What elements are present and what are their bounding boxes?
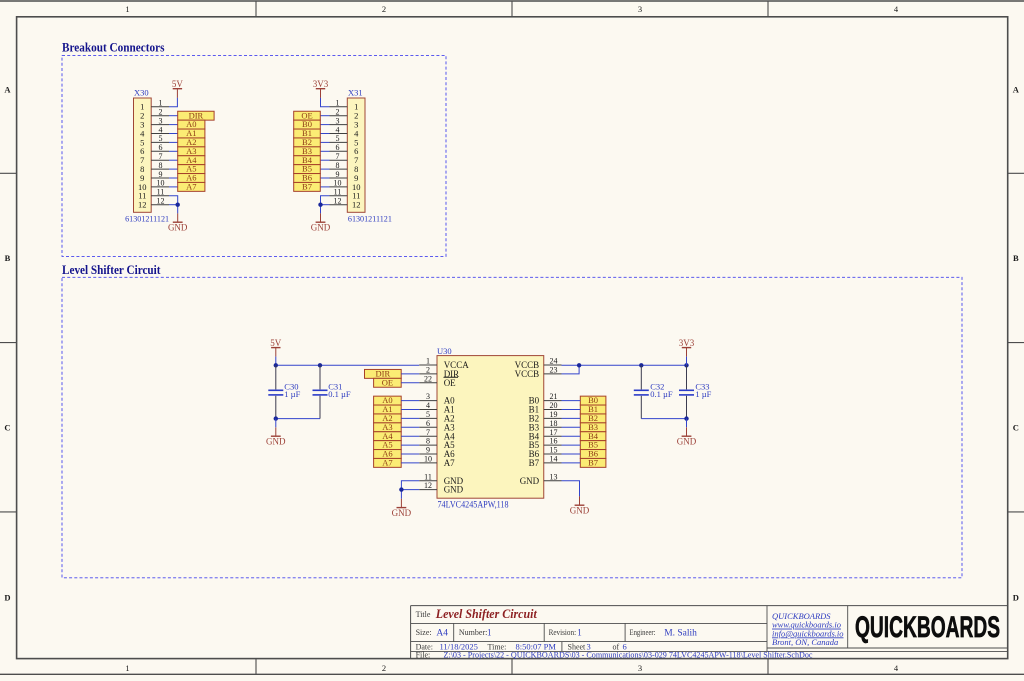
wire 3V3 stem bbox=[686, 357, 688, 366]
section dashed box Level Shifter Circuit bbox=[62, 277, 962, 578]
pin 2 of X31 bbox=[330, 108, 348, 117]
capacitor C31 bbox=[313, 365, 351, 418]
wire X31 pin12 to GND bbox=[321, 204, 330, 206]
port B2 at X31 bbox=[294, 137, 321, 147]
section dashed box Breakout Connectors bbox=[62, 55, 446, 256]
wire A5 port to U30 bbox=[401, 444, 419, 446]
svg-text:A: A bbox=[1013, 85, 1020, 95]
port B2 at U30 bbox=[580, 413, 606, 423]
wire X30 pin6 to port bbox=[169, 150, 178, 152]
svg-text:19: 19 bbox=[550, 410, 558, 419]
svg-text:Level Shifter Circuit: Level Shifter Circuit bbox=[62, 263, 161, 277]
pin 5 of X31 bbox=[330, 134, 348, 143]
ground GND at U30 right bbox=[570, 496, 590, 515]
svg-text:4: 4 bbox=[336, 125, 340, 134]
wire left gnd stem bbox=[400, 490, 402, 499]
zone tick vertical top bbox=[767, 1, 769, 17]
wire A7 port to U30 bbox=[401, 462, 419, 464]
svg-text:A7: A7 bbox=[382, 457, 392, 467]
power symbol 3V3 at level shifter bbox=[679, 338, 695, 357]
svg-text:2: 2 bbox=[426, 366, 430, 375]
svg-text:5: 5 bbox=[159, 134, 163, 143]
svg-text:9: 9 bbox=[159, 170, 163, 179]
svg-text:3V3: 3V3 bbox=[313, 79, 329, 89]
wire X31 pin6 to port bbox=[320, 150, 329, 152]
svg-text:1: 1 bbox=[487, 627, 492, 637]
svg-text:6: 6 bbox=[336, 143, 340, 152]
port B5 at U30 bbox=[580, 440, 606, 450]
ground GND at C33 bbox=[677, 427, 697, 446]
junction 5V rail at C30 bbox=[274, 363, 278, 367]
port A7 at U30 bbox=[374, 457, 402, 467]
svg-text:Revision:: Revision: bbox=[549, 628, 577, 637]
svg-text:0.1 µF: 0.1 µF bbox=[650, 389, 673, 399]
pin 23 VCCB of U30 bbox=[515, 366, 562, 380]
pin 3 of X31 bbox=[330, 116, 348, 125]
svg-text:14: 14 bbox=[550, 455, 558, 464]
wire X31 pin1 to 3V3 bbox=[321, 98, 330, 107]
wire U30 to B7 port bbox=[562, 462, 581, 464]
svg-text:GND: GND bbox=[677, 437, 697, 447]
pin 8 of X31 bbox=[330, 161, 348, 170]
pin 17 B4 of U30 bbox=[529, 428, 562, 442]
svg-text:A7: A7 bbox=[186, 181, 196, 191]
zone tick vertical top bbox=[511, 1, 513, 17]
wire A1 port to U30 bbox=[401, 409, 419, 411]
pin 1 of X30 bbox=[151, 99, 169, 108]
svg-text:2: 2 bbox=[336, 108, 340, 117]
svg-text:11: 11 bbox=[157, 188, 165, 197]
zone tick horizontal right bbox=[1008, 172, 1024, 174]
svg-text:4: 4 bbox=[426, 401, 430, 410]
svg-text:17: 17 bbox=[550, 428, 558, 437]
pin 10 of X30 bbox=[151, 179, 169, 188]
svg-text:C: C bbox=[1013, 423, 1019, 433]
svg-text:24: 24 bbox=[550, 357, 558, 366]
svg-text:20: 20 bbox=[550, 401, 558, 410]
svg-text:X31: X31 bbox=[348, 87, 363, 97]
port A5 at X30 bbox=[178, 164, 205, 174]
svg-text:Size:: Size: bbox=[416, 628, 432, 637]
svg-text:9: 9 bbox=[336, 170, 340, 179]
pin 19 B2 of U30 bbox=[529, 410, 562, 424]
svg-text:3: 3 bbox=[426, 392, 430, 401]
pin 10 of X31 bbox=[330, 179, 348, 188]
zone tick horizontal right bbox=[1008, 511, 1024, 513]
wire C32 bottom to C33 bottom bbox=[641, 418, 686, 420]
pin 14 B7 of U30 bbox=[529, 455, 562, 469]
wire X30 pin7 to port bbox=[169, 159, 178, 161]
svg-text:12: 12 bbox=[138, 200, 147, 210]
port B4 at X31 bbox=[294, 155, 321, 165]
pin 6 A3 of U30 bbox=[419, 419, 455, 433]
svg-text:GND: GND bbox=[520, 476, 540, 486]
svg-text:12: 12 bbox=[334, 197, 342, 206]
wire DIR port to U30 pin2 bbox=[401, 373, 419, 375]
port OE at U30 bbox=[374, 377, 402, 387]
svg-text:4: 4 bbox=[159, 125, 163, 134]
svg-text:QUICKBOARDS: QUICKBOARDS bbox=[855, 611, 1000, 644]
svg-text:15: 15 bbox=[550, 446, 558, 455]
zone tick vertical bottom bbox=[511, 659, 513, 675]
power symbol 5V at X30 bbox=[172, 79, 184, 98]
junction rail at C32 bbox=[639, 363, 643, 367]
wire X31 pin4 to port bbox=[320, 133, 329, 135]
junction U30 left gnd bbox=[399, 487, 403, 491]
port A3 at X30 bbox=[178, 146, 205, 156]
wire U30 to B1 port bbox=[562, 409, 581, 411]
svg-text:8: 8 bbox=[426, 437, 430, 446]
wire X31 pin9 to port bbox=[320, 177, 329, 179]
wire A6 port to U30 bbox=[401, 453, 419, 455]
svg-text:12: 12 bbox=[424, 481, 432, 490]
wire X30 pin4 to port bbox=[169, 133, 178, 135]
svg-text:12: 12 bbox=[352, 200, 361, 210]
pin 4 of X31 bbox=[330, 125, 348, 134]
wire X31 pin3 to port bbox=[320, 124, 329, 126]
wire U30 pin23 up to rail bbox=[562, 365, 580, 374]
ground GND at U30 left bbox=[392, 499, 412, 518]
junction 5V rail at C31 bbox=[318, 363, 322, 367]
pin 13 GND of U30 bbox=[520, 472, 562, 486]
svg-text:3: 3 bbox=[638, 663, 642, 673]
pin 9 of X31 bbox=[330, 170, 348, 179]
wire C31 bottom to C30 bottom bbox=[276, 418, 320, 420]
svg-text:B7: B7 bbox=[302, 181, 312, 191]
svg-text:10: 10 bbox=[157, 179, 165, 188]
pin 7 of X31 bbox=[330, 152, 348, 161]
title block company info bbox=[772, 611, 844, 647]
pin 11 GND of U30 bbox=[419, 472, 463, 486]
svg-text:12: 12 bbox=[157, 197, 165, 206]
svg-text:Number:: Number: bbox=[459, 628, 487, 637]
ground GND at X30 bbox=[168, 213, 188, 232]
pin 5 of X30 bbox=[151, 134, 169, 143]
svg-text:6: 6 bbox=[426, 419, 430, 428]
title block Date row bbox=[416, 642, 627, 652]
wire X31 pin7 to port bbox=[320, 159, 329, 161]
svg-text:Z:\03 - Projects\22 - QUICKBOA: Z:\03 - Projects\22 - QUICKBOARDS\03 - C… bbox=[444, 650, 813, 660]
svg-text:GND: GND bbox=[311, 223, 331, 233]
port B3 at U30 bbox=[580, 422, 606, 432]
port B0 at U30 bbox=[580, 395, 606, 405]
pin 3 of X30 bbox=[151, 116, 169, 125]
wire X30 pin2 to port bbox=[169, 115, 178, 117]
sheet outer border top line bbox=[0, 0, 1024, 2]
svg-text:A4: A4 bbox=[436, 628, 448, 638]
port A2 at U30 bbox=[374, 413, 402, 423]
pin 9 of X30 bbox=[151, 170, 169, 179]
svg-text:5: 5 bbox=[426, 410, 430, 419]
wire U30 to B2 port bbox=[562, 417, 581, 419]
svg-text:Title: Title bbox=[416, 610, 431, 619]
wire X31 pin5 to port bbox=[320, 141, 329, 143]
pin 1 VCCA of U30 bbox=[419, 357, 469, 371]
svg-text:D: D bbox=[1013, 593, 1019, 603]
svg-text:OE: OE bbox=[444, 378, 456, 388]
capacitor C33 bbox=[679, 365, 712, 418]
ground GND at C30 bbox=[266, 427, 286, 446]
connector X31 bbox=[347, 87, 392, 223]
sheet outer border bottom line bbox=[0, 673, 1024, 675]
svg-text:5: 5 bbox=[336, 134, 340, 143]
zone tick horizontal right bbox=[1008, 342, 1024, 344]
wire C30 to GND bbox=[275, 419, 277, 428]
wire U30 pin12 to gnd net bbox=[401, 489, 419, 491]
wire 5V stem bbox=[275, 357, 277, 366]
wire X30 pin11 down to pin12 net bbox=[169, 196, 178, 205]
wire U30 to B3 port bbox=[562, 426, 581, 428]
port A6 at U30 bbox=[374, 449, 402, 459]
svg-text:2: 2 bbox=[382, 663, 386, 673]
svg-text:5V: 5V bbox=[270, 338, 282, 348]
pin 11 of X31 bbox=[330, 188, 348, 197]
zone tick vertical top bbox=[255, 1, 257, 17]
svg-text:Breakout Connectors: Breakout Connectors bbox=[62, 41, 165, 55]
pin 16 B5 of U30 bbox=[529, 437, 562, 451]
svg-text:1: 1 bbox=[577, 627, 582, 637]
wire U30 pin24 to 3V3 rail bbox=[562, 364, 687, 366]
svg-text:B7: B7 bbox=[588, 457, 598, 467]
wire X30 pin1 to 5V bbox=[169, 98, 177, 107]
svg-text:13: 13 bbox=[550, 472, 558, 481]
wire X31 gnd stem bbox=[320, 205, 322, 214]
wire A0 port to U30 bbox=[401, 400, 419, 402]
pin 3 A0 of U30 bbox=[419, 392, 455, 406]
svg-text:16: 16 bbox=[550, 437, 558, 446]
pin 7 of X30 bbox=[151, 152, 169, 161]
pin 6 of X31 bbox=[330, 143, 348, 152]
port A1 at X30 bbox=[178, 128, 205, 138]
zone tick horizontal left bbox=[0, 172, 17, 174]
port A0 at U30 bbox=[374, 395, 402, 405]
wire U30 to B5 port bbox=[562, 444, 581, 446]
zone tick vertical bottom bbox=[767, 659, 769, 675]
port DIR at X30 bbox=[178, 110, 214, 120]
wire X31 pin10 to port bbox=[320, 186, 329, 188]
svg-text:11: 11 bbox=[334, 188, 342, 197]
port B7 at X31 bbox=[294, 181, 321, 191]
svg-text:1: 1 bbox=[426, 357, 430, 366]
pin 2 of X30 bbox=[151, 108, 169, 117]
pin 4 of X30 bbox=[151, 125, 169, 134]
svg-text:5V: 5V bbox=[172, 79, 184, 89]
svg-text:7: 7 bbox=[426, 428, 430, 437]
wire U30 to B0 port bbox=[562, 400, 581, 402]
svg-text:File:: File: bbox=[416, 651, 431, 660]
svg-text:GND: GND bbox=[444, 485, 464, 495]
svg-text:10: 10 bbox=[424, 455, 432, 464]
capacitor C32 bbox=[634, 365, 673, 418]
power symbol 5V at level shifter bbox=[270, 338, 282, 357]
title block Title row bbox=[416, 606, 538, 621]
svg-text:Level Shifter Circuit: Level Shifter Circuit bbox=[435, 606, 537, 621]
title block File row bbox=[416, 650, 813, 660]
svg-text:2: 2 bbox=[159, 108, 163, 117]
wire X30 pin12 to GND bbox=[169, 204, 178, 206]
pin 15 B6 of U30 bbox=[529, 446, 562, 460]
svg-text:GND: GND bbox=[266, 437, 286, 447]
wire X30 gnd stem bbox=[177, 205, 179, 214]
pin 8 A5 of U30 bbox=[419, 437, 455, 451]
svg-text:OE: OE bbox=[382, 377, 393, 387]
svg-text:A7: A7 bbox=[444, 458, 455, 468]
svg-text:U30: U30 bbox=[437, 346, 452, 356]
svg-text:1 µF: 1 µF bbox=[284, 389, 300, 399]
port A1 at U30 bbox=[374, 404, 402, 414]
port B3 at X31 bbox=[294, 146, 321, 156]
wire X31 pin11 down to pin12 net bbox=[321, 196, 330, 205]
junction X30 gnd bbox=[176, 203, 180, 207]
svg-text:18: 18 bbox=[550, 419, 558, 428]
wire X30 pin10 to port bbox=[169, 186, 178, 188]
pin 7 A4 of U30 bbox=[419, 428, 455, 442]
svg-text:22: 22 bbox=[424, 374, 432, 383]
svg-text:9: 9 bbox=[426, 446, 430, 455]
svg-text:8: 8 bbox=[159, 161, 163, 170]
svg-text:74LVC4245APW,118: 74LVC4245APW,118 bbox=[438, 499, 509, 509]
pin 12 of X30 bbox=[151, 197, 169, 206]
wire U30 to B6 port bbox=[562, 453, 581, 455]
wire X31 pin2 to port bbox=[320, 115, 329, 117]
pin 8 of X30 bbox=[151, 161, 169, 170]
power symbol 3V3 at X31 bbox=[313, 79, 329, 98]
pin 24 VCCB of U30 bbox=[515, 357, 562, 371]
port A4 at X30 bbox=[178, 155, 205, 165]
port A2 at X30 bbox=[178, 137, 205, 147]
title block Size/Number/Revision/Engineer row bbox=[416, 627, 698, 638]
svg-text:61301211121: 61301211121 bbox=[125, 214, 169, 223]
wire A2 port to U30 bbox=[401, 417, 419, 419]
pin 5 A2 of U30 bbox=[419, 410, 455, 424]
pin 12 GND of U30 bbox=[419, 481, 463, 495]
junction X31 gnd bbox=[318, 203, 322, 207]
wire A3 port to U30 bbox=[401, 426, 419, 428]
wire X30 pin3 to port bbox=[169, 124, 178, 126]
zone tick vertical bottom bbox=[255, 659, 257, 675]
svg-text:8: 8 bbox=[336, 161, 340, 170]
wire U30 to B4 port bbox=[562, 435, 581, 437]
svg-text:GND: GND bbox=[570, 506, 590, 516]
wire U30 pin13 to gnd bbox=[562, 481, 580, 497]
svg-text:21: 21 bbox=[550, 392, 558, 401]
svg-text:GND: GND bbox=[168, 223, 188, 233]
ground GND at X31 bbox=[311, 213, 331, 232]
svg-text:1: 1 bbox=[336, 99, 340, 108]
wire OE port to U30 pin22 bbox=[401, 382, 419, 384]
svg-text:61301211121: 61301211121 bbox=[348, 214, 392, 223]
junction C30 bottom bbox=[274, 416, 278, 420]
pin 21 B0 of U30 bbox=[529, 392, 562, 406]
svg-text:3: 3 bbox=[336, 116, 340, 125]
pin 18 B3 of U30 bbox=[529, 419, 562, 433]
svg-text:B7: B7 bbox=[529, 458, 540, 468]
wire 5V rail to U30 pin1 bbox=[276, 364, 419, 366]
wire U30 pin11 to gnd net bbox=[401, 481, 419, 490]
svg-text:10: 10 bbox=[334, 179, 342, 188]
pin 6 of X30 bbox=[151, 143, 169, 152]
junction rail at C33 bbox=[684, 363, 688, 367]
IC U30 74LVC4245APW body bbox=[437, 346, 544, 510]
capacitor C30 bbox=[268, 365, 300, 418]
wire A4 port to U30 bbox=[401, 435, 419, 437]
svg-text:Bront, ON, Canada: Bront, ON, Canada bbox=[772, 637, 838, 647]
zone tick horizontal left bbox=[0, 511, 17, 513]
svg-text:Engineer:: Engineer: bbox=[630, 628, 656, 637]
svg-text:3: 3 bbox=[638, 4, 642, 14]
svg-text:1: 1 bbox=[159, 99, 163, 108]
svg-text:GND: GND bbox=[392, 508, 412, 518]
wire X31 pin8 to port bbox=[320, 168, 329, 170]
svg-text:M. Salih: M. Salih bbox=[664, 629, 697, 639]
port B6 at X31 bbox=[294, 173, 321, 183]
pin 11 of X30 bbox=[151, 188, 169, 197]
port B7 at U30 bbox=[580, 457, 606, 467]
zone tick horizontal left bbox=[0, 342, 17, 344]
svg-text:1: 1 bbox=[125, 4, 129, 14]
port OE at X31 bbox=[294, 110, 321, 120]
junction C33 bottom bbox=[684, 416, 688, 420]
connector X30 bbox=[125, 87, 169, 223]
pin 9 A6 of U30 bbox=[419, 446, 455, 460]
port A7 at X30 bbox=[178, 181, 205, 191]
svg-text:B: B bbox=[1013, 253, 1019, 263]
wire X30 pin8 to port bbox=[169, 168, 178, 170]
svg-text:B: B bbox=[5, 253, 11, 263]
port B6 at U30 bbox=[580, 449, 606, 459]
svg-text:6: 6 bbox=[159, 143, 163, 152]
svg-text:7: 7 bbox=[336, 152, 340, 161]
wire X30 pin5 to port bbox=[169, 141, 178, 143]
port B4 at U30 bbox=[580, 431, 606, 441]
pin 20 B1 of U30 bbox=[529, 401, 562, 415]
pin 2 DIR of U30 bbox=[419, 366, 459, 380]
wire C33 to GND bbox=[686, 419, 688, 428]
wire X30 pin9 to port bbox=[169, 177, 178, 179]
port A3 at U30 bbox=[374, 422, 402, 432]
svg-text:3V3: 3V3 bbox=[679, 338, 695, 348]
svg-text:VCCB: VCCB bbox=[515, 369, 540, 379]
svg-text:3: 3 bbox=[159, 116, 163, 125]
port A0 at X30 bbox=[178, 119, 205, 129]
port A5 at U30 bbox=[374, 440, 402, 450]
svg-text:1: 1 bbox=[125, 663, 129, 673]
pin 12 of X31 bbox=[330, 197, 348, 206]
pin 22 OE of U30 bbox=[419, 374, 458, 388]
junction pin23 tie bbox=[577, 363, 581, 367]
svg-text:7: 7 bbox=[159, 152, 163, 161]
svg-text:1 µF: 1 µF bbox=[695, 389, 711, 399]
pin 4 A1 of U30 bbox=[419, 401, 455, 415]
svg-text:D: D bbox=[4, 593, 10, 603]
svg-text:2: 2 bbox=[382, 4, 386, 14]
port B5 at X31 bbox=[294, 164, 321, 174]
svg-text:X30: X30 bbox=[134, 87, 149, 97]
port B1 at U30 bbox=[580, 404, 606, 414]
svg-text:C: C bbox=[4, 423, 10, 433]
svg-text:A: A bbox=[4, 85, 11, 95]
port B1 at X31 bbox=[294, 128, 321, 138]
port A6 at X30 bbox=[178, 173, 205, 183]
title block frame bbox=[411, 606, 1008, 659]
port B0 at X31 bbox=[294, 119, 321, 129]
pin 1 of X31 bbox=[330, 99, 348, 108]
svg-text:0.1 µF: 0.1 µF bbox=[328, 389, 351, 399]
port A4 at U30 bbox=[374, 431, 402, 441]
pin 10 A7 of U30 bbox=[419, 455, 455, 469]
svg-text:11: 11 bbox=[424, 472, 432, 481]
svg-text:23: 23 bbox=[550, 366, 558, 375]
